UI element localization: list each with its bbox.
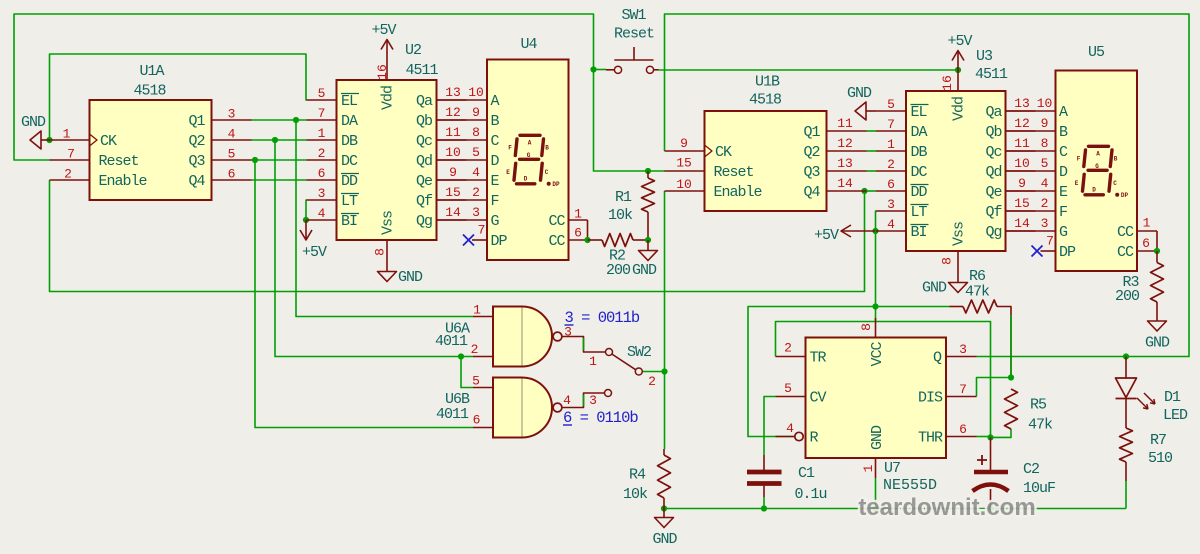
IC U2 4511 body xyxy=(337,80,437,240)
pin 8 C (U4) wire from U2 xyxy=(437,139,488,141)
svg-text:DD: DD xyxy=(911,184,928,201)
svg-text:Enable: Enable xyxy=(714,184,763,201)
svg-text:13: 13 xyxy=(1014,96,1030,111)
svg-text:U5: U5 xyxy=(1088,44,1105,61)
pin 1 DB (U2) xyxy=(307,139,337,141)
svg-text:4518: 4518 xyxy=(749,92,782,109)
svg-text:8: 8 xyxy=(940,257,955,265)
wire R1-junction to U1B Reset pin xyxy=(648,170,665,172)
svg-text:EL: EL xyxy=(911,104,928,121)
pin 14 Q4 (U1B) xyxy=(827,190,867,192)
svg-text:D: D xyxy=(524,175,528,182)
wire U1A Enable to U1B Q4 node xyxy=(50,180,865,292)
wire bottom ground bus xyxy=(664,508,1126,510)
svg-text:Enable: Enable xyxy=(99,173,148,190)
svg-text:Q2: Q2 xyxy=(188,133,204,150)
no-connect X at U4 DP xyxy=(463,235,474,246)
pin 7 DP (U4) xyxy=(472,239,487,241)
svg-text:LT: LT xyxy=(911,204,928,221)
svg-text:D: D xyxy=(1092,186,1096,193)
svg-text:5: 5 xyxy=(472,145,480,160)
svg-text:A: A xyxy=(1059,104,1068,121)
pin 7 DP (U5) xyxy=(1041,250,1056,252)
svg-text:Qa: Qa xyxy=(985,104,1002,121)
svg-text:Reset: Reset xyxy=(99,153,139,170)
svg-text:4518: 4518 xyxy=(133,83,166,100)
pin 16 Vdd (U2) xyxy=(386,50,388,80)
svg-text:B: B xyxy=(491,113,500,130)
svg-text:4511: 4511 xyxy=(975,66,1008,83)
pin 12 Qb (U3) xyxy=(1006,130,1036,132)
svg-text:Q1: Q1 xyxy=(803,124,820,141)
svg-text:6: 6 xyxy=(959,422,967,437)
svg-text:E: E xyxy=(506,169,510,176)
resistor R3 xyxy=(1156,251,1158,263)
wire R5 bottom to THR node xyxy=(991,429,1012,437)
svg-text:E: E xyxy=(491,173,500,190)
svg-text:Qc: Qc xyxy=(985,144,1001,161)
junction U1B Q4 node xyxy=(861,188,867,194)
pin 9 Qe (U3) xyxy=(1006,190,1036,192)
svg-text:10k: 10k xyxy=(623,486,648,503)
pin 5 EL (U2) xyxy=(307,99,337,101)
wire U6A output to SW2 pin1 xyxy=(562,337,606,353)
pin 1 DB (U3) xyxy=(876,150,906,152)
junction R4 bottom xyxy=(661,505,667,511)
capacitor C1 xyxy=(763,455,765,470)
pin 11 Qc (U2) xyxy=(437,139,467,141)
wire U1B Q2 to U3 DB xyxy=(867,150,877,152)
ground symbol at R2 xyxy=(647,240,649,251)
svg-text:5: 5 xyxy=(887,97,895,112)
svg-text:5: 5 xyxy=(318,86,326,101)
svg-text:47k: 47k xyxy=(1028,417,1053,434)
svg-text:B: B xyxy=(545,145,549,152)
svg-text:9: 9 xyxy=(1041,116,1049,131)
pin 15 Reset (U1B) xyxy=(665,170,705,172)
pin 2 F (U4) wire from U2 xyxy=(437,199,488,201)
junction DIS/R5 node xyxy=(1008,374,1014,380)
wire Q3 to U6B pin6 xyxy=(255,160,473,428)
pin 13 Q3 (U1B) xyxy=(827,170,867,172)
svg-text:4: 4 xyxy=(1041,176,1049,191)
svg-text:2: 2 xyxy=(471,342,479,357)
pin 7 DIS (U7) xyxy=(946,396,977,398)
svg-text:BI: BI xyxy=(911,224,927,241)
svg-text:Vss: Vss xyxy=(380,211,397,235)
pin 3 Q1 (U1A) xyxy=(212,119,252,121)
svg-text:U7: U7 xyxy=(884,460,900,477)
pin 2 TR (U7) xyxy=(776,356,806,358)
power +5V at U3 Vdd xyxy=(957,51,959,71)
svg-text:2: 2 xyxy=(887,157,895,172)
pin 4 Q2 (U1A) xyxy=(212,139,252,141)
svg-text:F: F xyxy=(508,145,512,152)
pin 14 Qg (U2) xyxy=(437,219,467,221)
wire R6 right elbow down to DIS node xyxy=(997,307,1011,378)
pin 2 DC (U2) xyxy=(307,159,337,161)
svg-text:TR: TR xyxy=(810,350,827,367)
svg-text:Q4: Q4 xyxy=(803,184,820,201)
pin 10 A (U5) wire from U3 xyxy=(1006,110,1056,112)
pin 8 C (U5) wire from U3 xyxy=(1006,150,1056,152)
svg-text:GND: GND xyxy=(922,280,947,297)
svg-text:CC: CC xyxy=(548,213,565,230)
resistor R2 xyxy=(588,239,603,241)
no-connect X at U5 DP xyxy=(1032,246,1043,257)
svg-text:1: 1 xyxy=(473,303,481,318)
svg-text:1: 1 xyxy=(861,464,876,472)
svg-text:Qg: Qg xyxy=(985,224,1001,241)
svg-text:6: 6 xyxy=(318,166,326,181)
svg-text:13: 13 xyxy=(445,85,461,100)
wire U1B Q1 to U3 DA xyxy=(867,130,877,132)
IC U7 NE555D body xyxy=(806,338,947,459)
svg-text:1: 1 xyxy=(589,354,597,369)
svg-text:1: 1 xyxy=(574,207,582,222)
svg-text:2: 2 xyxy=(784,341,792,356)
svg-text:15: 15 xyxy=(445,185,461,200)
wire U3 LT-BI tie xyxy=(875,211,878,231)
svg-text:R5: R5 xyxy=(1030,397,1047,414)
svg-text:DP: DP xyxy=(552,181,560,188)
ground symbol at U1A CK xyxy=(41,139,50,141)
svg-text:Q3: Q3 xyxy=(803,164,820,181)
svg-text:G: G xyxy=(1059,224,1068,241)
ground symbol at R4 xyxy=(663,509,665,518)
wire Q4-DD xyxy=(252,179,307,181)
wire U1B Q3 to U3 DC xyxy=(867,170,877,172)
ground symbol at U2 Vss xyxy=(378,272,397,282)
svg-text:G: G xyxy=(1095,163,1099,170)
resistor R7 xyxy=(1120,428,1133,462)
svg-text:12: 12 xyxy=(1014,116,1030,131)
switch SW1 push button xyxy=(614,66,621,73)
svg-text:15: 15 xyxy=(1014,196,1030,211)
junction U1A CK GND node xyxy=(46,137,52,143)
IC U4 7-segment display body xyxy=(487,60,569,261)
pin 3 LT (U2) xyxy=(307,199,337,201)
svg-text:C: C xyxy=(545,169,549,176)
svg-text:9: 9 xyxy=(449,165,457,180)
pin 13 Qa (U3) xyxy=(1006,110,1036,112)
7-segment digit glyph U4 xyxy=(520,134,540,137)
switch SW2 SPDT xyxy=(606,349,613,356)
svg-text:GND: GND xyxy=(847,85,872,102)
pin 1 CC (U4) xyxy=(569,219,588,221)
svg-text:B: B xyxy=(1059,124,1068,141)
NAND gate U6B 4011 body xyxy=(493,378,552,438)
svg-text:3: 3 xyxy=(589,393,597,408)
junction C2 bottom xyxy=(987,505,993,511)
svg-text:10: 10 xyxy=(1014,156,1030,171)
junction THR node xyxy=(987,434,993,440)
junction LED node xyxy=(1123,353,1129,359)
svg-text:5: 5 xyxy=(472,374,480,389)
svg-text:1: 1 xyxy=(887,137,895,152)
svg-text:7: 7 xyxy=(67,147,75,162)
pin 6 DD (U3) xyxy=(876,190,906,192)
wire U2 LT-BI tie xyxy=(305,200,308,220)
svg-text:NE555D: NE555D xyxy=(883,477,937,494)
wire Q1 to U6A pin1 xyxy=(296,120,473,317)
svg-text:3: 3 xyxy=(959,342,967,357)
wire THR pin stub xyxy=(977,436,991,438)
svg-text:2: 2 xyxy=(472,185,480,200)
svg-text:THR: THR xyxy=(918,430,943,447)
svg-text:200: 200 xyxy=(606,262,631,279)
wire TR to THR loop xyxy=(776,322,991,438)
pin 6 input (U6B) xyxy=(473,427,493,429)
pin 3 LT (U3) xyxy=(876,210,906,212)
junction VCC node xyxy=(872,303,878,309)
junction U7 GND bottom xyxy=(872,505,878,511)
svg-text:Qb: Qb xyxy=(416,113,432,130)
svg-text:1: 1 xyxy=(1143,216,1151,231)
svg-text:16: 16 xyxy=(940,75,955,91)
svg-text:Q1: Q1 xyxy=(188,113,205,130)
pin 5 input (U6B) xyxy=(473,387,493,389)
power +5V at U2 BI (down arrow) xyxy=(305,220,307,240)
svg-text:8: 8 xyxy=(472,125,480,140)
IC U1B 4518 body xyxy=(705,111,827,211)
svg-text:CC: CC xyxy=(1117,224,1134,241)
svg-text:6: 6 xyxy=(228,167,236,182)
svg-text:47k: 47k xyxy=(965,284,990,301)
svg-text:D1: D1 xyxy=(1164,389,1181,406)
svg-text:E: E xyxy=(1059,184,1068,201)
pin 10 Qd (U2) xyxy=(437,159,467,161)
svg-text:D: D xyxy=(1059,164,1068,181)
svg-text:GND: GND xyxy=(21,114,46,131)
svg-text:D: D xyxy=(491,153,500,170)
pin 7 DA (U3) xyxy=(876,130,906,132)
capacitor C2 polarized xyxy=(990,437,992,470)
svg-text:9: 9 xyxy=(472,105,480,120)
svg-text:Reset: Reset xyxy=(714,164,754,181)
ground symbol at U3 EL xyxy=(866,110,876,112)
svg-text:10: 10 xyxy=(468,85,484,100)
wire CV to C1 xyxy=(764,397,776,456)
junction R1/R2 node xyxy=(645,237,651,243)
svg-text:U4: U4 xyxy=(520,36,537,53)
svg-text:1: 1 xyxy=(318,126,326,141)
svg-text:U1B: U1B xyxy=(755,74,780,91)
svg-text:6: 6 xyxy=(574,226,582,241)
svg-text:4: 4 xyxy=(887,217,895,232)
svg-text:DB: DB xyxy=(341,133,358,150)
svg-text:9: 9 xyxy=(1018,176,1026,191)
svg-text:CV: CV xyxy=(810,390,827,407)
svg-text:8: 8 xyxy=(1041,136,1049,151)
svg-text:CK: CK xyxy=(100,133,117,150)
pin 11 Qc (U3) xyxy=(1006,150,1036,152)
svg-text:Qe: Qe xyxy=(416,173,433,190)
svg-text:GND: GND xyxy=(869,425,886,450)
svg-text:R7: R7 xyxy=(1150,432,1166,449)
wire U1A-Reset to SW1 (top left loop) xyxy=(14,14,648,171)
svg-text:C2: C2 xyxy=(1023,461,1039,478)
wire DIS pin elbow to R5 node xyxy=(977,378,1012,397)
svg-text:7: 7 xyxy=(478,223,486,238)
pin 6 DD (U2) xyxy=(307,179,337,181)
svg-text:4: 4 xyxy=(472,165,480,180)
svg-text:4: 4 xyxy=(563,393,571,408)
pin 9 B (U4) wire from U2 xyxy=(437,119,488,121)
pin 4 E (U4) wire from U2 xyxy=(437,179,488,181)
pin 6 CC (U5) xyxy=(1137,250,1157,252)
pin 7 DA (U2) xyxy=(307,119,337,121)
pin 8 Vss (U2) xyxy=(386,240,388,272)
pin 2 input (U6A) xyxy=(473,356,493,358)
pin 1 CC (U5) xyxy=(1137,230,1157,232)
junction R1 top / U1B Reset xyxy=(645,168,651,174)
svg-text:Vdd: Vdd xyxy=(380,86,397,110)
svg-text:Q4: Q4 xyxy=(188,173,205,190)
svg-text:8: 8 xyxy=(373,248,388,256)
svg-text:LED: LED xyxy=(1163,407,1188,424)
svg-text:11: 11 xyxy=(1014,136,1030,151)
IC U5 7-segment display body xyxy=(1056,71,1138,272)
svg-text:+5V: +5V xyxy=(371,22,396,39)
pin 3 Q (U7) xyxy=(946,356,977,358)
pin 1 input (U6A) xyxy=(473,316,493,318)
svg-text:0.1u: 0.1u xyxy=(794,486,826,503)
pin 14 Qg (U3) xyxy=(1006,230,1036,232)
svg-text:2: 2 xyxy=(1041,196,1049,211)
wire SW1 right to U3 Vdd +5V xyxy=(659,69,959,71)
svg-text:GND: GND xyxy=(1145,335,1170,352)
junction Q3 node xyxy=(252,157,258,163)
pin 11 Q1 (U1B) xyxy=(827,130,867,132)
svg-text:10: 10 xyxy=(676,177,692,192)
LED emission arrows D1 xyxy=(1137,398,1148,409)
svg-text:2: 2 xyxy=(318,146,326,161)
pin 4 BI (U3) xyxy=(876,230,906,232)
svg-text:Vdd: Vdd xyxy=(951,97,968,121)
wire U1B Q4 to U3 DD xyxy=(867,190,877,192)
pin 4 BI (U2) xyxy=(307,219,337,221)
wire U6B output to SW2 pin3 xyxy=(562,393,605,408)
pin 10 Enable (U1B) xyxy=(665,190,705,192)
wire U3 BI to VCC node xyxy=(875,231,877,307)
svg-text:Q3: Q3 xyxy=(188,153,205,170)
NAND gate U6A 4011 body xyxy=(493,307,552,367)
svg-text:DA: DA xyxy=(911,124,928,141)
wire U7 R pin to VCC node xyxy=(748,307,876,437)
plus sign C2 xyxy=(977,455,987,465)
svg-text:Reset: Reset xyxy=(614,26,654,43)
7-segment digit glyph U5 xyxy=(1089,145,1109,148)
svg-text:Q2: Q2 xyxy=(803,144,819,161)
wire Q2-DB xyxy=(252,139,307,141)
svg-text:4: 4 xyxy=(318,206,326,221)
wire U6A pin2 node to U6B pin5 xyxy=(461,357,473,388)
svg-text:E: E xyxy=(1075,180,1079,187)
junction U3 BI +5V xyxy=(872,228,878,234)
svg-text:C1: C1 xyxy=(798,465,815,482)
pin 10 Qd (U3) xyxy=(1006,170,1036,172)
ground symbol at U3 Vss xyxy=(949,283,968,293)
pin 12 Qb (U2) xyxy=(437,119,467,121)
pin 6 THR (U7) xyxy=(946,436,977,438)
pin 9 CK (U1B) xyxy=(665,150,705,152)
svg-text:3: 3 xyxy=(228,107,236,122)
svg-text:6: 6 xyxy=(473,413,481,428)
svg-text:F: F xyxy=(491,193,500,210)
svg-text:+5V: +5V xyxy=(814,227,839,244)
svg-text:F: F xyxy=(1059,204,1068,221)
pin 7 Reset (U1A) xyxy=(50,159,90,161)
svg-text:11: 11 xyxy=(837,116,853,131)
svg-text:5: 5 xyxy=(1041,156,1049,171)
svg-text:6: 6 xyxy=(887,177,895,192)
svg-text:3: 3 xyxy=(1041,216,1049,231)
svg-text:DD: DD xyxy=(341,173,358,190)
junction SW2 common node xyxy=(661,368,667,374)
svg-text:10: 10 xyxy=(445,145,461,160)
wire SW1 left stub xyxy=(594,69,607,71)
svg-text:G: G xyxy=(491,213,500,230)
svg-text:U2: U2 xyxy=(405,42,421,59)
pin 5 CV (U7) xyxy=(776,396,806,398)
svg-text:Vss: Vss xyxy=(951,222,968,246)
pin 6 Q4 (U1A) xyxy=(212,179,252,181)
junction C1 bottom xyxy=(761,505,767,511)
pin 4 R (U7) xyxy=(776,436,795,438)
svg-text:3: 3 xyxy=(887,197,895,212)
pin 9 Qe (U2) xyxy=(437,179,467,181)
svg-text:SW1: SW1 xyxy=(621,7,646,24)
wire U5 CC tie xyxy=(1156,231,1158,251)
wire VCC node to U7 VCC pin xyxy=(875,307,877,321)
svg-text:1: 1 xyxy=(63,127,71,142)
pin 6 CC (U4) xyxy=(569,239,588,241)
svg-text:Qe: Qe xyxy=(985,184,1002,201)
junction U2 BI +5V xyxy=(303,217,309,223)
svg-text:6 = 0110b: 6 = 0110b xyxy=(563,409,638,427)
svg-text:LT: LT xyxy=(341,193,358,210)
svg-text:Qd: Qd xyxy=(416,153,432,170)
pin 12 Q2 (U1B) xyxy=(827,150,867,152)
pin 5 D (U4) wire from U2 xyxy=(437,159,488,161)
svg-text:A: A xyxy=(491,93,500,110)
svg-text:5: 5 xyxy=(228,147,236,162)
svg-text:DB: DB xyxy=(911,144,928,161)
pin 3 G (U4) wire from U2 xyxy=(437,219,488,221)
svg-text:G: G xyxy=(527,152,531,159)
svg-text:14: 14 xyxy=(837,176,853,191)
svg-text:Qg: Qg xyxy=(416,213,432,230)
pin 3 G (U5) wire from U3 xyxy=(1006,230,1056,232)
svg-text:DP: DP xyxy=(1121,192,1129,199)
svg-text:R1: R1 xyxy=(615,189,632,206)
svg-text:Q: Q xyxy=(933,350,942,367)
svg-text:Qf: Qf xyxy=(985,204,1002,221)
IC U3 4511 body xyxy=(906,91,1006,251)
junction Q1 node xyxy=(293,117,299,123)
svg-text:GND: GND xyxy=(652,531,677,548)
wire SW2 pin2 to common node xyxy=(643,371,665,373)
pin 2 F (U5) wire from U3 xyxy=(1006,210,1056,212)
svg-text:10: 10 xyxy=(1037,96,1053,111)
wire Q1-DA xyxy=(252,119,307,121)
svg-text:3: 3 xyxy=(472,205,480,220)
pin 2 DC (U3) xyxy=(876,170,906,172)
pin 9 B (U5) wire from U3 xyxy=(1006,130,1056,132)
svg-text:C: C xyxy=(491,133,500,150)
svg-text:DC: DC xyxy=(911,164,928,181)
